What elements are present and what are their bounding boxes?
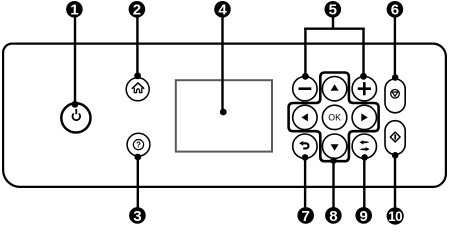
svg-text:OK: OK (328, 112, 341, 122)
LCD screen (176, 80, 272, 151)
callout badge 7 (297, 207, 314, 225)
power button (61, 103, 90, 132)
callout line 2 (134, 12, 141, 79)
down arrow button (322, 134, 346, 158)
svg-text:8: 8 (329, 208, 337, 225)
svg-text:9: 9 (360, 208, 368, 225)
callout badge 10 (387, 207, 404, 224)
svg-text:3: 3 (133, 208, 141, 225)
callout line 9 (361, 154, 368, 214)
callout badge 3 (129, 207, 146, 225)
callout badge 4 (214, 1, 231, 19)
control panel outline (3, 44, 446, 187)
help button (127, 133, 150, 156)
back button (293, 134, 317, 158)
up arrow button (322, 77, 346, 101)
callout line 1 (72, 12, 79, 108)
callout line 8 (330, 157, 337, 214)
callout line 3 (134, 154, 141, 214)
callout line 4 (220, 12, 227, 115)
svg-text:7: 7 (302, 208, 310, 225)
start button (385, 121, 405, 155)
plus button (352, 77, 376, 101)
svg-text:10: 10 (388, 209, 402, 224)
callout badge 1 (66, 1, 83, 19)
svg-text:4: 4 (218, 2, 227, 19)
callout line 10 (392, 152, 399, 214)
callout badge 2 (129, 1, 146, 19)
svg-text:?: ? (136, 141, 141, 150)
minus button (293, 77, 317, 101)
home button (126, 78, 149, 101)
callout badge 8 (325, 207, 342, 225)
svg-text:1: 1 (70, 2, 78, 19)
callout line 5 (forked to minus and plus) (302, 12, 367, 80)
paper/switch button (two arrows) (352, 134, 376, 158)
callout badge 6 (387, 1, 404, 19)
OK button (322, 105, 346, 129)
keypad cross outline (289, 73, 379, 162)
callout line 7 (302, 154, 309, 214)
callout line 6 (392, 12, 399, 81)
left arrow button (293, 105, 317, 129)
svg-text:6: 6 (391, 2, 399, 19)
svg-text:5: 5 (329, 2, 337, 19)
svg-text:2: 2 (133, 2, 141, 19)
right arrow button (352, 105, 376, 129)
callout badge 5 (325, 1, 342, 19)
stop button (385, 79, 405, 113)
callout badge 9 (355, 207, 372, 225)
